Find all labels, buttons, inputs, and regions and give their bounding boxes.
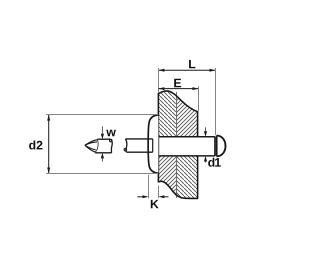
label E [174,79,181,87]
rivet flange head (dome) [148,115,158,173]
K left arrow [137,195,148,198]
plate upper hatch right field (slash) [177,88,198,138]
label L [189,60,195,68]
plate lower hatch left field (slash) [158,155,197,200]
d2 bottom extension line [46,173,158,175]
mandrel stem (broken, emerges from flange) [125,139,152,152]
mandrel tip cone base ellipse arc [95,140,98,152]
K left extension line [148,175,150,199]
label w [106,130,116,137]
mandrel stem cap at flange [152,139,154,152]
E right extension line [198,86,200,111]
K right arrow [159,195,169,198]
label K [151,200,159,208]
mandrel tip cone lower petal [85,145,95,152]
mandrel tip piece cylinder [95,139,111,153]
plate upper outline (wavy break top + right edge) [158,91,197,137]
dimension w upper arrow [101,126,104,139]
plate lower hatch right field (backslash) [177,155,198,200]
label d2 [29,140,42,149]
mandrel stem left break squiggle [125,139,126,152]
K right extension line [158,186,160,199]
dimension L line with arrows [158,69,215,72]
dimension w lower arrow [101,153,104,162]
L right extension line [215,68,217,135]
label d1 [208,158,221,167]
plate joint seam lower [176,156,178,198]
d2 top extension line [46,114,158,116]
mandrel stem break loop [124,148,127,151]
mandrel head knob [217,136,226,157]
plate left face line [157,93,159,182]
rivet body (sleeve) [158,137,215,156]
dimension d2 line with arrows [47,115,50,174]
plate lower outline (right edge + wavy break bottom) [158,156,197,199]
mandrel tip right break squiggle [110,139,112,153]
dimension d1 lower arrow [204,156,207,163]
L left extension line [158,68,160,93]
plate upper hatch left field (backslash) [158,88,197,138]
plate joint seam upper [176,92,178,137]
mandrel tip break loop [110,139,113,142]
dimension E line with arrows [158,87,198,90]
dimension d1 upper arrow [204,127,207,136]
mandrel tip cone upper petal [85,140,98,146]
